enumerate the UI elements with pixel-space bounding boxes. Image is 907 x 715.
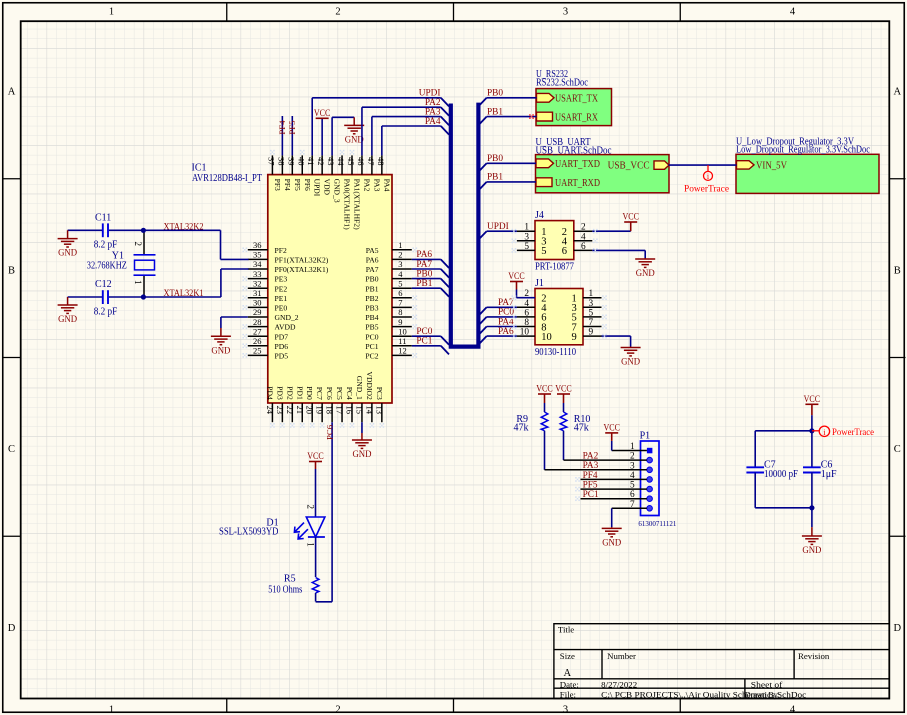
svg-text:XTAL32K1: XTAL32K1 <box>164 289 204 299</box>
svg-text:C11: C11 <box>95 213 111 224</box>
svg-text:PB2: PB2 <box>365 294 378 303</box>
svg-text:4: 4 <box>790 6 796 17</box>
svg-text:UPDI: UPDI <box>313 179 322 197</box>
svg-text:45: 45 <box>346 157 356 166</box>
svg-text:XTAL32K2: XTAL32K2 <box>164 222 204 232</box>
svg-text:4: 4 <box>790 704 796 715</box>
svg-text:10: 10 <box>541 332 552 343</box>
svg-text:13: 13 <box>374 406 384 415</box>
svg-text:17: 17 <box>335 406 345 415</box>
svg-text:B: B <box>894 265 901 276</box>
svg-text:4: 4 <box>581 232 586 242</box>
svg-text:J1: J1 <box>535 278 544 289</box>
svg-text:PA2: PA2 <box>583 452 599 462</box>
svg-text:47k: 47k <box>574 423 589 434</box>
svg-text:USB_VCC: USB_VCC <box>608 161 650 172</box>
svg-text:PE3: PE3 <box>275 275 288 284</box>
svg-text:File:: File: <box>560 689 576 699</box>
svg-text:7: 7 <box>589 318 594 328</box>
svg-text:36: 36 <box>253 240 262 250</box>
svg-text:Revision: Revision <box>798 651 830 661</box>
svg-text:PA1(XTALHF2): PA1(XTALHF2) <box>353 179 362 230</box>
svg-text:1: 1 <box>109 704 114 715</box>
svg-text:1: 1 <box>524 223 529 233</box>
svg-text:PE2: PE2 <box>275 284 288 293</box>
svg-text:PA6: PA6 <box>416 250 432 260</box>
svg-text:PE0: PE0 <box>275 304 288 313</box>
svg-text:Sheet of: Sheet of <box>751 679 783 689</box>
svg-text:PA5: PA5 <box>366 246 379 255</box>
svg-text:PA2: PA2 <box>362 179 371 192</box>
svg-text:7: 7 <box>398 298 402 308</box>
svg-text:22: 22 <box>285 406 295 415</box>
svg-text:19: 19 <box>315 406 325 415</box>
svg-text:GND: GND <box>58 314 77 325</box>
svg-text:20: 20 <box>305 406 315 415</box>
svg-text:2: 2 <box>305 505 315 510</box>
svg-text:R5: R5 <box>284 574 296 585</box>
svg-text:2: 2 <box>335 6 340 17</box>
svg-text:28: 28 <box>253 317 262 327</box>
svg-text:VDDIO2: VDDIO2 <box>365 372 374 400</box>
svg-text:25: 25 <box>253 346 262 356</box>
svg-text:Title: Title <box>558 625 574 635</box>
svg-text:PRT-10877: PRT-10877 <box>535 262 574 273</box>
svg-text:PD7: PD7 <box>275 332 289 341</box>
svg-text:Number: Number <box>607 651 636 661</box>
svg-text:PD4: PD4 <box>265 386 274 400</box>
svg-text:GND_3: GND_3 <box>333 179 342 203</box>
svg-text:GND: GND <box>211 345 230 356</box>
svg-text:PA0(XTALHF1): PA0(XTALHF1) <box>343 179 352 230</box>
svg-text:35: 35 <box>253 250 262 260</box>
svg-text:26: 26 <box>253 336 262 346</box>
svg-text:5: 5 <box>524 242 529 252</box>
svg-text:90130-1110: 90130-1110 <box>535 347 576 358</box>
svg-text:PC0: PC0 <box>365 332 378 341</box>
svg-text:6: 6 <box>562 246 567 257</box>
svg-text:32: 32 <box>253 278 262 288</box>
svg-text:47: 47 <box>366 157 376 166</box>
svg-text:5: 5 <box>589 308 594 318</box>
svg-text:9: 9 <box>398 317 402 327</box>
svg-text:PF4: PF4 <box>583 471 598 481</box>
svg-text:PC6: PC6 <box>325 387 334 400</box>
svg-text:GND: GND <box>58 248 77 259</box>
svg-text:VCC: VCC <box>536 384 553 395</box>
svg-text:9: 9 <box>572 332 577 343</box>
svg-text:32.768KHZ: 32.768KHZ <box>87 261 127 272</box>
svg-text:VCC: VCC <box>555 384 572 395</box>
svg-text:1: 1 <box>109 6 114 17</box>
svg-text:PB0: PB0 <box>487 154 503 164</box>
svg-text:PC4: PC4 <box>345 387 354 400</box>
svg-text:PA7: PA7 <box>416 260 432 270</box>
svg-text:PB0: PB0 <box>416 269 432 279</box>
svg-text:PC6: PC6 <box>324 424 334 440</box>
svg-text:8: 8 <box>398 307 402 317</box>
svg-text:AVDD: AVDD <box>275 323 296 332</box>
svg-text:PC0: PC0 <box>416 327 432 337</box>
svg-text:PA4: PA4 <box>382 179 391 192</box>
svg-text:USART_RX: USART_RX <box>555 112 598 123</box>
svg-text:10000 pF: 10000 pF <box>764 469 798 480</box>
svg-text:A: A <box>8 87 16 98</box>
svg-text:33: 33 <box>253 269 262 279</box>
svg-text:USB_UART.SchDoc: USB_UART.SchDoc <box>536 145 612 156</box>
svg-text:IC1: IC1 <box>192 162 207 173</box>
svg-text:D: D <box>8 623 16 634</box>
svg-text:44: 44 <box>336 157 346 166</box>
svg-text:PD2: PD2 <box>285 386 294 400</box>
svg-text:GND: GND <box>345 134 364 145</box>
svg-text:12: 12 <box>398 346 407 356</box>
svg-text:PF5: PF5 <box>583 481 598 491</box>
svg-text:VCC: VCC <box>804 394 821 405</box>
svg-text:2: 2 <box>133 242 143 247</box>
svg-text:A: A <box>894 87 902 98</box>
svg-text:VCC: VCC <box>622 212 639 223</box>
svg-text:6: 6 <box>398 288 402 298</box>
svg-text:PD0: PD0 <box>305 386 314 400</box>
svg-text:PB3: PB3 <box>365 304 378 313</box>
svg-text:31: 31 <box>253 288 262 298</box>
svg-text:UART_TXD: UART_TXD <box>555 159 600 170</box>
svg-text:PowerTrace: PowerTrace <box>832 428 874 438</box>
svg-text:PF4: PF4 <box>283 179 292 191</box>
svg-text:6: 6 <box>581 242 586 252</box>
svg-text:GND: GND <box>636 268 655 279</box>
svg-text:16: 16 <box>345 406 355 415</box>
svg-text:GND: GND <box>602 537 621 548</box>
svg-text:PB1: PB1 <box>416 279 432 289</box>
svg-text:SSL-LX5093YD: SSL-LX5093YD <box>219 527 278 538</box>
svg-text:PD5: PD5 <box>275 352 289 361</box>
svg-text:1: 1 <box>398 240 402 250</box>
svg-text:1: 1 <box>589 289 594 299</box>
svg-text:48: 48 <box>376 157 386 166</box>
svg-text:GND_2: GND_2 <box>275 313 299 322</box>
svg-text:PB5: PB5 <box>365 323 378 332</box>
svg-text:3: 3 <box>563 704 568 715</box>
svg-text:34: 34 <box>253 259 262 269</box>
svg-text:Size: Size <box>560 651 575 661</box>
svg-text:21: 21 <box>295 406 305 415</box>
svg-text:PE1: PE1 <box>275 294 288 303</box>
svg-text:40: 40 <box>296 157 306 166</box>
svg-text:24: 24 <box>265 406 275 415</box>
svg-text:PB0: PB0 <box>487 89 503 99</box>
svg-text:PF0(XTAL32K1): PF0(XTAL32K1) <box>275 265 329 274</box>
svg-text:3: 3 <box>589 299 594 309</box>
svg-text:2: 2 <box>398 250 402 260</box>
svg-text:10: 10 <box>398 326 407 336</box>
svg-text:38: 38 <box>276 157 286 166</box>
svg-text:UART_RXD: UART_RXD <box>555 178 600 189</box>
svg-text:PC5: PC5 <box>335 387 344 400</box>
svg-text:8.2 pF: 8.2 pF <box>94 240 118 251</box>
svg-text:PA4: PA4 <box>425 117 441 127</box>
svg-text:8/27/2022: 8/27/2022 <box>601 679 637 689</box>
svg-text:A: A <box>564 668 572 679</box>
svg-text:37: 37 <box>266 157 276 166</box>
svg-text:GND: GND <box>352 449 371 460</box>
svg-text:PA3: PA3 <box>372 179 381 192</box>
svg-text:PB0: PB0 <box>365 275 378 284</box>
svg-text:23: 23 <box>275 406 285 415</box>
svg-text:8: 8 <box>524 318 529 328</box>
svg-text:18: 18 <box>325 406 335 415</box>
svg-text:PC1: PC1 <box>365 342 378 351</box>
svg-text:C: C <box>8 444 15 455</box>
svg-text:GND: GND <box>621 357 640 368</box>
svg-text:42: 42 <box>316 157 326 166</box>
svg-text:3: 3 <box>398 259 402 269</box>
svg-text:8.2 pF: 8.2 pF <box>94 307 118 318</box>
svg-text:61300711121: 61300711121 <box>638 519 676 528</box>
svg-text:PC7: PC7 <box>315 387 324 400</box>
svg-text:14: 14 <box>364 406 374 415</box>
svg-text:4: 4 <box>524 299 529 309</box>
svg-text:D: D <box>894 623 902 634</box>
svg-text:PB1: PB1 <box>365 284 378 293</box>
svg-text:5: 5 <box>398 278 402 288</box>
svg-text:VCC: VCC <box>307 451 324 462</box>
svg-text:PB1: PB1 <box>487 173 503 183</box>
svg-text:GND: GND <box>802 545 821 556</box>
svg-text:P1: P1 <box>640 430 651 441</box>
svg-text:2: 2 <box>335 704 340 715</box>
svg-text:GND_1: GND_1 <box>355 376 364 400</box>
svg-text:AVR128DB48-I_PT: AVR128DB48-I_PT <box>192 173 262 184</box>
svg-text:PC3: PC3 <box>375 387 384 400</box>
svg-text:PF1(XTAL32K2): PF1(XTAL32K2) <box>275 256 329 265</box>
svg-text:PF5: PF5 <box>293 179 302 191</box>
svg-text:VCC: VCC <box>603 422 620 433</box>
svg-text:29: 29 <box>253 307 262 317</box>
svg-text:15: 15 <box>354 406 364 415</box>
svg-text:3: 3 <box>563 6 568 17</box>
svg-text:4: 4 <box>398 269 403 279</box>
svg-text:9: 9 <box>589 328 594 338</box>
svg-text:Low_Dropout_Regulator_3.3V.Sch: Low_Dropout_Regulator_3.3V.SchDoc <box>736 145 870 156</box>
svg-text:PD1: PD1 <box>295 386 304 400</box>
svg-text:6: 6 <box>524 308 529 318</box>
svg-text:C12: C12 <box>95 279 112 290</box>
svg-text:PF5: PF5 <box>287 120 297 135</box>
svg-text:VCC: VCC <box>314 108 331 119</box>
svg-text:B: B <box>8 265 15 276</box>
svg-text:510 Ohms: 510 Ohms <box>268 584 302 595</box>
svg-text:2: 2 <box>581 223 586 233</box>
svg-text:47k: 47k <box>514 423 529 434</box>
svg-text:27: 27 <box>253 326 262 336</box>
svg-text:PF6: PF6 <box>303 179 312 191</box>
svg-text:1: 1 <box>133 280 143 285</box>
svg-text:30: 30 <box>253 298 262 308</box>
svg-text:USART_TX: USART_TX <box>555 94 598 105</box>
svg-text:PA6: PA6 <box>366 256 379 265</box>
svg-text:1: 1 <box>305 542 315 547</box>
svg-text:PB4: PB4 <box>365 313 378 322</box>
svg-text:5: 5 <box>541 246 546 257</box>
svg-text:3: 3 <box>524 232 529 242</box>
svg-text:RS232.SchDoc: RS232.SchDoc <box>536 77 588 88</box>
svg-text:1μF: 1μF <box>821 469 837 480</box>
svg-text:VCC: VCC <box>508 271 525 282</box>
svg-text:PB1: PB1 <box>487 107 503 117</box>
svg-text:PowerTrace: PowerTrace <box>684 184 729 194</box>
svg-text:46: 46 <box>356 157 366 166</box>
svg-text:PD6: PD6 <box>275 342 289 351</box>
svg-text:Date:: Date: <box>560 679 579 689</box>
svg-text:VIN_5V: VIN_5V <box>756 160 787 171</box>
svg-text:PD3: PD3 <box>275 386 284 400</box>
svg-text:PC1: PC1 <box>583 490 599 500</box>
svg-text:PF3: PF3 <box>273 179 282 191</box>
svg-text:J4: J4 <box>535 210 544 221</box>
svg-text:C: C <box>894 444 901 455</box>
svg-text:39: 39 <box>286 157 296 166</box>
svg-text:Drawn By:: Drawn By: <box>745 689 780 699</box>
svg-text:PC2: PC2 <box>365 352 378 361</box>
svg-text:PC1: PC1 <box>416 337 432 347</box>
svg-text:PA7: PA7 <box>366 265 379 274</box>
svg-text:UPDI: UPDI <box>487 222 509 232</box>
svg-text:10: 10 <box>520 328 530 338</box>
svg-text:VDD: VDD <box>323 179 332 196</box>
svg-text:11: 11 <box>398 336 406 346</box>
svg-text:PA3: PA3 <box>583 461 599 471</box>
svg-text:PF4: PF4 <box>277 120 287 135</box>
svg-text:41: 41 <box>306 157 316 166</box>
svg-text:PF2: PF2 <box>275 246 287 255</box>
svg-text:43: 43 <box>326 157 336 166</box>
